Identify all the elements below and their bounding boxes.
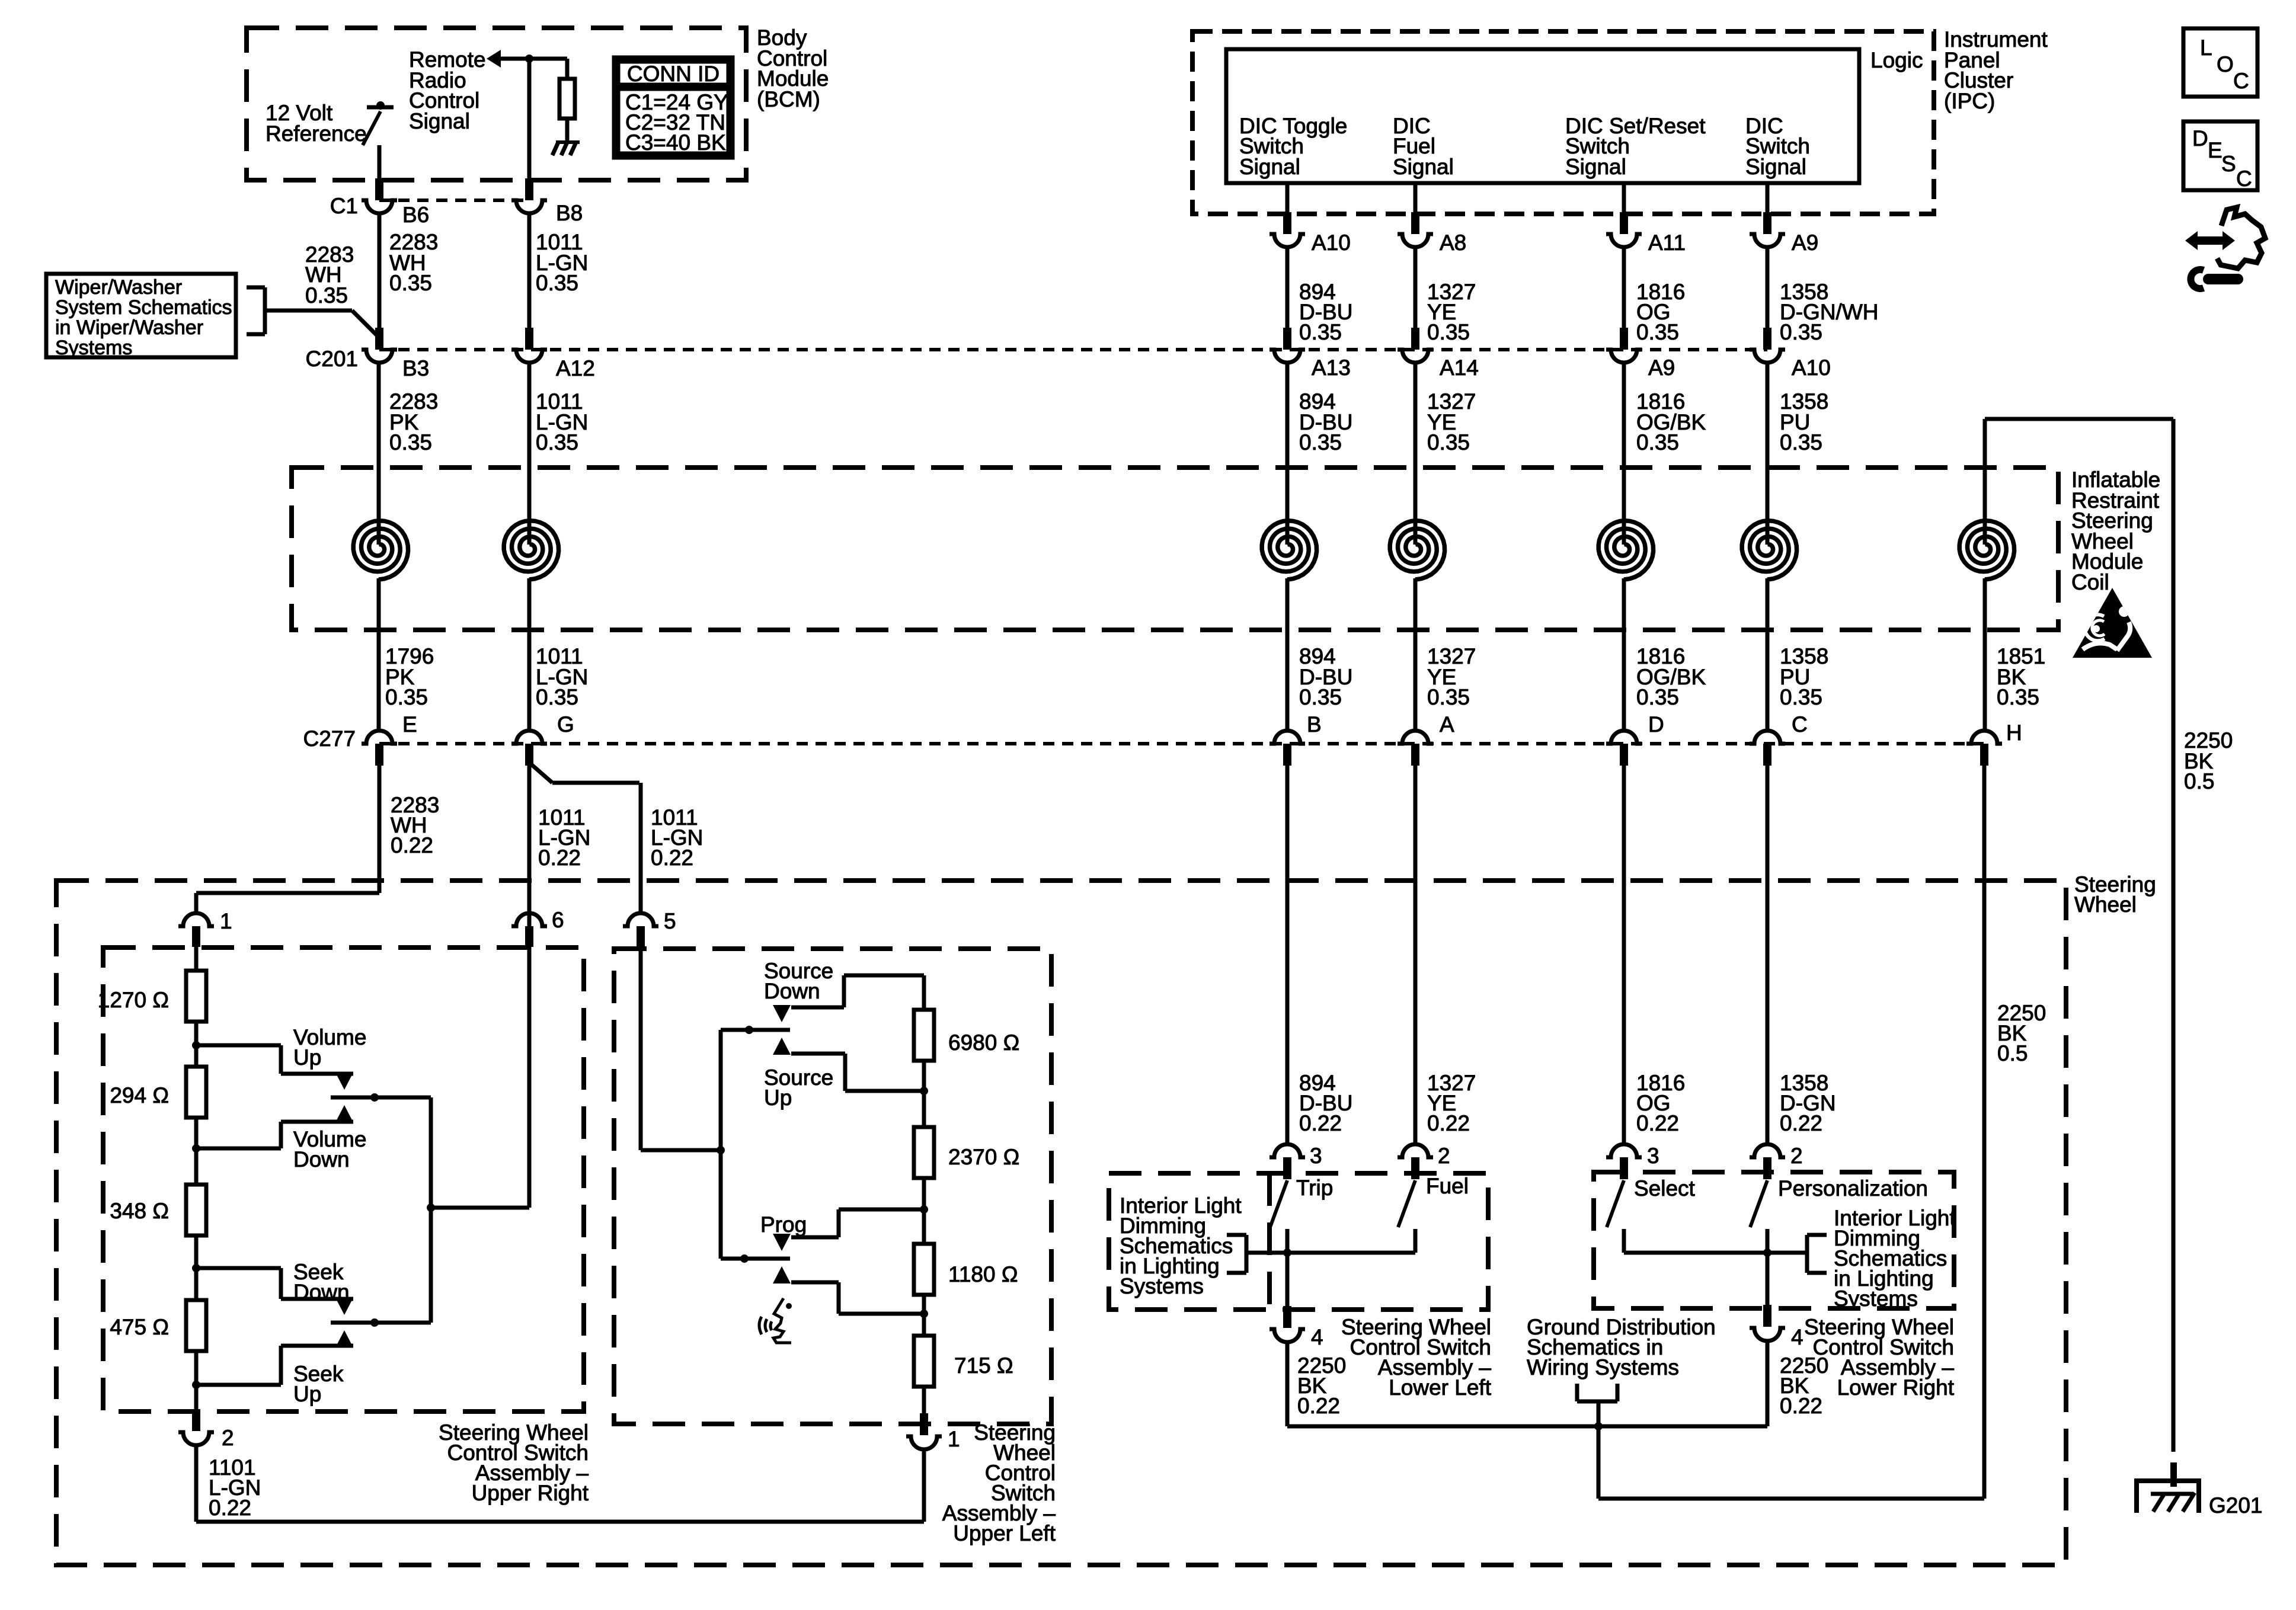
pin 4 LL female xyxy=(1269,1329,1305,1342)
switch S1 top contact xyxy=(367,105,394,110)
svg-text:A9: A9 xyxy=(1792,231,1818,255)
svg-text:4: 4 xyxy=(1311,1325,1323,1349)
wire chain d xyxy=(194,1351,199,1409)
resistor 1270 xyxy=(186,971,206,1022)
wire prog up xyxy=(791,1235,839,1240)
svg-text:(IPC): (IPC) xyxy=(1944,89,1995,113)
wire to pin1 xyxy=(194,893,199,914)
svg-text:1180 Ω: 1180 Ω xyxy=(948,1262,1018,1286)
svg-text:0.35: 0.35 xyxy=(389,430,432,454)
pin IPC-A10 male xyxy=(1283,212,1291,234)
svg-text:Select: Select xyxy=(1634,1176,1696,1201)
svg-text:0.35: 0.35 xyxy=(1636,685,1679,709)
junction dot prog bar xyxy=(740,1254,749,1263)
pin C277-C female xyxy=(1750,731,1785,744)
wire pin4 LR down xyxy=(1766,1341,1770,1426)
ground G201 stub xyxy=(2170,1462,2177,1487)
junction dot remote radio xyxy=(525,55,533,63)
wire B6 to C201 xyxy=(378,213,382,328)
pin 1 male xyxy=(192,926,200,947)
pin C201-A13 male xyxy=(1283,328,1291,350)
Trip switch blade xyxy=(1270,1180,1287,1227)
arrow remote radio xyxy=(487,50,501,68)
junction dot ground xyxy=(1594,1422,1603,1430)
switch S1 blade xyxy=(363,111,380,145)
pin Trip pin 3 male xyxy=(1283,1157,1291,1179)
wire branch down to pin5 xyxy=(639,783,643,914)
svg-text:3: 3 xyxy=(1310,1144,1322,1168)
svg-text:Personalization: Personalization xyxy=(1778,1176,1928,1201)
pin C201-A9b male xyxy=(1620,328,1628,350)
prog rocker bar xyxy=(721,1257,790,1261)
wire switch rail UR xyxy=(429,1097,433,1323)
pin C1-B6 male xyxy=(375,178,383,200)
wire rail to pin6 xyxy=(431,1206,529,1210)
svg-text:0.5: 0.5 xyxy=(2184,769,2214,793)
svg-text:0.22: 0.22 xyxy=(1427,1111,1470,1135)
steering wheel coil x3349 xyxy=(1959,521,2014,580)
svg-text:System Schematics: System Schematics xyxy=(55,296,232,319)
junction dot source up xyxy=(920,1087,928,1095)
svg-text:0.22: 0.22 xyxy=(651,846,693,870)
svg-text:A12: A12 xyxy=(556,356,595,380)
svg-text:294 Ω: 294 Ω xyxy=(110,1083,169,1108)
wire Pers lower xyxy=(1766,1229,1770,1253)
svg-text:Systems: Systems xyxy=(55,337,132,359)
wire B down xyxy=(1285,766,1290,1144)
wire volume up xyxy=(196,1044,281,1048)
svg-text:6: 6 xyxy=(552,908,564,932)
wire into coil x893 xyxy=(527,363,532,545)
steering wheel coil x2740 xyxy=(1598,521,1653,580)
svg-text:0.5: 0.5 xyxy=(1997,1041,2028,1065)
pin C201-A12 female xyxy=(511,350,547,363)
wire E corner xyxy=(196,891,379,895)
source rocker bar xyxy=(721,1028,790,1032)
pin IPC-A8 male xyxy=(1411,212,1419,234)
Upper Right assembly dashed box xyxy=(103,948,584,1411)
wire volume down xyxy=(196,1147,281,1151)
pin 1 UL female xyxy=(906,1436,942,1449)
svg-text:Logic: Logic xyxy=(1870,48,1923,72)
svg-text:B3: B3 xyxy=(402,356,429,380)
pin C277-B female xyxy=(1269,731,1305,744)
junction dot seek down xyxy=(192,1264,200,1272)
junction dot volume bar xyxy=(370,1093,379,1102)
junction dot rail UR xyxy=(427,1204,435,1212)
svg-text:in Wiper/Washer: in Wiper/Washer xyxy=(55,316,203,339)
steering wheel coil x639 xyxy=(353,521,408,580)
wire Trip lower xyxy=(1285,1229,1290,1253)
steering wheel coil x893 xyxy=(504,521,558,580)
svg-text:0.35: 0.35 xyxy=(1636,320,1679,344)
junction dot trip xyxy=(1283,1249,1291,1257)
seek up switch triangle xyxy=(335,1330,353,1347)
svg-text:6980 Ω: 6980 Ω xyxy=(948,1030,1019,1055)
svg-text:Up: Up xyxy=(764,1086,792,1110)
wire res chain UL e xyxy=(922,1387,926,1414)
wire res chain UL c xyxy=(922,1178,926,1244)
voice switch triangle xyxy=(773,1266,791,1283)
DESC box xyxy=(2183,121,2257,190)
svg-text:1: 1 xyxy=(220,909,232,933)
svg-text:Upper Right: Upper Right xyxy=(472,1481,589,1505)
pin C201-A10b male xyxy=(1763,328,1771,350)
svg-text:Signal: Signal xyxy=(1745,155,1806,179)
pin 4 LR stub xyxy=(1763,1305,1771,1327)
pin C201-A10b female xyxy=(1750,350,1785,363)
wire IPC pin A11 down xyxy=(1622,247,1626,328)
pin C201-A14 male xyxy=(1411,328,1419,350)
wire res chain UL a xyxy=(922,975,926,1010)
Wiper/Washer note box xyxy=(46,274,236,357)
svg-text:O: O xyxy=(2217,52,2234,76)
svg-text:2: 2 xyxy=(222,1426,234,1450)
svg-text:A8: A8 xyxy=(1440,231,1466,255)
IPC dashed box xyxy=(1192,31,1934,214)
steering wheel coil x2982 xyxy=(1742,521,1796,580)
LOC box xyxy=(2183,28,2257,97)
svg-text:G: G xyxy=(557,712,574,737)
wire source up xyxy=(791,1052,845,1056)
pin 2 stub xyxy=(192,1409,200,1431)
svg-text:0.35: 0.35 xyxy=(536,685,578,709)
svg-text:0.35: 0.35 xyxy=(305,283,348,308)
ground G201 symbol xyxy=(2134,1478,2201,1483)
svg-text:L: L xyxy=(2200,36,2212,60)
wire B8 inside BCM xyxy=(527,59,532,180)
pin C277-H male xyxy=(1980,744,1988,766)
svg-text:0.35: 0.35 xyxy=(536,430,578,454)
coil module dashed box xyxy=(292,468,2058,630)
seek down switch triangle xyxy=(335,1298,353,1315)
svg-text:5: 5 xyxy=(664,909,676,933)
svg-text:Down: Down xyxy=(293,1147,350,1172)
svg-text:1: 1 xyxy=(948,1427,960,1451)
volume rocker bar xyxy=(331,1096,431,1100)
wire select-pers common xyxy=(1624,1251,1807,1255)
svg-text:0.35: 0.35 xyxy=(1299,430,1342,454)
svg-text:2370 Ω: 2370 Ω xyxy=(948,1145,1019,1169)
svg-text:Trip: Trip xyxy=(1296,1176,1333,1200)
svg-text:Prog: Prog xyxy=(760,1212,807,1237)
wire IPC pin A8 down xyxy=(1414,247,1418,328)
svg-text:0.35: 0.35 xyxy=(1427,320,1470,344)
svg-text:Upper Left: Upper Left xyxy=(953,1521,1056,1545)
wire ground horizontal xyxy=(1287,1425,1767,1429)
svg-text:C277: C277 xyxy=(303,726,356,751)
svg-text:0.35: 0.35 xyxy=(389,271,432,295)
wire into coil x2388 xyxy=(1414,363,1418,545)
seek rocker bar xyxy=(331,1321,431,1325)
connector line C201 xyxy=(379,348,1767,351)
junction dot volume up xyxy=(192,1041,200,1049)
wire bracket stem xyxy=(1597,1401,1601,1426)
wire into coil x2982 xyxy=(1766,363,1770,545)
pin Fuel pin 2 female xyxy=(1398,1144,1433,1157)
svg-text:D: D xyxy=(1648,712,1664,737)
wire ground to H xyxy=(1598,1497,1984,1501)
svg-text:E: E xyxy=(2208,138,2223,162)
pin C1-B8 male xyxy=(525,178,533,200)
steering wheel coil x2388 xyxy=(1390,521,1444,580)
wire trip to pin4 xyxy=(1285,1253,1290,1306)
svg-text:Coil: Coil xyxy=(2071,570,2109,594)
pin C1-B8 female xyxy=(511,200,547,213)
wire source down xyxy=(791,1006,844,1010)
svg-text:C: C xyxy=(2236,167,2252,191)
wire switch rail UL xyxy=(719,1030,723,1259)
wire 12V to C1 xyxy=(378,145,382,180)
voice recognition icon xyxy=(773,1298,791,1343)
wire H down xyxy=(1982,766,1987,1499)
svg-text:A11: A11 xyxy=(1648,231,1686,255)
svg-text:B: B xyxy=(1307,712,1322,737)
source up switch triangle xyxy=(773,1038,791,1055)
resistor 294 xyxy=(186,1067,206,1118)
pin 4 LR female xyxy=(1750,1328,1785,1341)
svg-text:1270 Ω: 1270 Ω xyxy=(98,988,169,1012)
pin Fuel pin 2 male xyxy=(1411,1157,1419,1179)
svg-text:C3=40 BK: C3=40 BK xyxy=(625,130,726,155)
svg-text:0.22: 0.22 xyxy=(391,833,433,857)
pin Trip pin 3 female xyxy=(1269,1144,1305,1157)
ground in BCM xyxy=(556,140,580,144)
svg-text:C: C xyxy=(2233,69,2249,93)
tool icon outline xyxy=(2217,207,2265,268)
resistor 6980 xyxy=(914,1010,934,1061)
svg-text:0.22: 0.22 xyxy=(1297,1394,1340,1418)
wire out of coil x2388 xyxy=(1414,578,1418,731)
svg-text:S: S xyxy=(2221,152,2236,176)
resistor 2370 xyxy=(914,1127,934,1178)
svg-text:0.22: 0.22 xyxy=(1780,1111,1822,1135)
Lower Right assembly dashed box xyxy=(1594,1172,1954,1308)
wire into coil x2740 xyxy=(1622,363,1626,545)
wire B8 to C201 xyxy=(527,213,532,328)
pin C277-D female xyxy=(1606,731,1642,744)
svg-text:Fuel: Fuel xyxy=(1426,1174,1469,1198)
pin IPC-A11 male xyxy=(1620,212,1628,234)
pin C201-B3 male xyxy=(375,328,383,350)
Select switch blade xyxy=(1607,1180,1624,1227)
wire into coil x639 xyxy=(377,363,381,545)
svg-text:Down: Down xyxy=(764,979,820,1003)
wire C down xyxy=(1766,766,1770,1144)
svg-text:0.35: 0.35 xyxy=(1427,430,1470,454)
connector line C1 xyxy=(379,199,529,202)
svg-text:B8: B8 xyxy=(556,201,583,225)
wire pin1 to resistor chain xyxy=(194,947,199,971)
pin C201-A9b female xyxy=(1606,350,1642,363)
wire into coil x3349 xyxy=(1983,419,1987,545)
wire A down xyxy=(1414,766,1418,1144)
wire IPC logic to pin A9 xyxy=(1766,183,1770,213)
wire ground drop xyxy=(1597,1426,1601,1499)
wire pers to pin4 xyxy=(1766,1253,1770,1305)
pin C277-C male xyxy=(1763,744,1771,766)
wire IPC pin A9 down xyxy=(1766,247,1770,328)
svg-text:475 Ω: 475 Ω xyxy=(110,1315,169,1339)
svg-text:Signal: Signal xyxy=(1565,155,1626,179)
wire coil top to right xyxy=(1985,417,2173,421)
svg-text:C201: C201 xyxy=(306,347,358,371)
svg-text:2: 2 xyxy=(1790,1144,1803,1168)
svg-text:B6: B6 xyxy=(402,203,429,227)
Upper Left assembly dashed box xyxy=(614,949,1051,1424)
wire pin1 UL down xyxy=(922,1449,926,1522)
pin C277-E female xyxy=(362,731,397,744)
svg-text:0.35: 0.35 xyxy=(1780,320,1822,344)
junction dot source bar xyxy=(745,1026,753,1034)
svg-text:CONN ID: CONN ID xyxy=(627,62,720,86)
svg-text:0.22: 0.22 xyxy=(1780,1394,1822,1418)
Steering Wheel dashed box xyxy=(56,881,2066,1565)
svg-text:3: 3 xyxy=(1647,1144,1659,1168)
svg-text:Lower Left: Lower Left xyxy=(1389,1375,1491,1400)
resistor 1180 xyxy=(914,1244,934,1295)
svg-text:Wiper/Washer: Wiper/Washer xyxy=(55,276,182,299)
svg-text:A9: A9 xyxy=(1648,356,1675,380)
pin C201-A12 male xyxy=(525,328,533,350)
junction dot seek up xyxy=(192,1381,200,1389)
pin C277-E male xyxy=(375,744,383,766)
svg-text:A10: A10 xyxy=(1792,356,1831,380)
pin C277-A male xyxy=(1411,744,1419,766)
pin C201-A13 female xyxy=(1269,350,1305,363)
CONN ID table xyxy=(614,57,733,158)
junction dot voice xyxy=(920,1310,928,1318)
resistor 715 xyxy=(914,1336,934,1387)
pin IPC-A9 female xyxy=(1750,234,1785,247)
pin IPC-A11 female xyxy=(1606,234,1642,247)
svg-text:4: 4 xyxy=(1791,1325,1803,1349)
junction dot pers xyxy=(1763,1249,1771,1257)
svg-text:A10: A10 xyxy=(1312,231,1351,255)
wire pin2 down xyxy=(194,1445,199,1522)
volume down switch triangle xyxy=(335,1105,353,1122)
svg-text:Wiring Systems: Wiring Systems xyxy=(1527,1355,1679,1379)
ground bracket xyxy=(1575,1384,1579,1401)
svg-text:H: H xyxy=(2006,721,2022,745)
wire pin5 into box xyxy=(641,1148,721,1153)
svg-text:0.22: 0.22 xyxy=(1299,1111,1342,1135)
junction dot seek bar xyxy=(370,1318,379,1327)
pin 6 female xyxy=(511,913,547,926)
pin 1 UL stub xyxy=(920,1413,928,1435)
svg-text:Wheel: Wheel xyxy=(2074,892,2137,917)
wire out of coil x2982 xyxy=(1766,578,1770,731)
wire out of coil x893 xyxy=(527,578,532,731)
Personalization switch blade xyxy=(1750,1180,1767,1227)
junction dot volume down xyxy=(192,1144,200,1153)
wire voice xyxy=(791,1281,839,1285)
pin 4 LL stub xyxy=(1283,1306,1291,1328)
svg-text:G201: G201 xyxy=(2209,1493,2263,1518)
pin Personalization pin 2 female xyxy=(1750,1144,1785,1157)
pin Select pin 3 female xyxy=(1606,1144,1642,1157)
wire chain c xyxy=(194,1235,199,1300)
wire to resistor xyxy=(565,59,570,79)
wire out of coil x3349 xyxy=(1983,578,1987,731)
svg-text:0.35: 0.35 xyxy=(1427,685,1470,709)
svg-text:A14: A14 xyxy=(1440,356,1479,380)
pin C201-B3 female xyxy=(362,350,397,363)
wire into coil x2172 xyxy=(1285,363,1290,545)
svg-text:E: E xyxy=(402,712,417,737)
pin IPC-A8 female xyxy=(1398,234,1433,247)
svg-text:D: D xyxy=(2192,126,2208,151)
wire IPC logic to pin A8 xyxy=(1414,183,1418,213)
pin C201-A14 female xyxy=(1398,350,1433,363)
svg-text:0.35: 0.35 xyxy=(1997,685,2039,709)
wire wiper tap xyxy=(265,309,352,313)
wire out of coil x2740 xyxy=(1622,578,1626,731)
junction dot prog up xyxy=(920,1205,928,1214)
wire G branch diagonal xyxy=(529,763,552,783)
svg-text:A: A xyxy=(1440,712,1454,737)
svg-text:0.22: 0.22 xyxy=(1636,1111,1679,1135)
pin Select pin 3 male xyxy=(1620,1157,1628,1179)
svg-text:Up: Up xyxy=(293,1045,321,1070)
wire D down xyxy=(1622,766,1626,1144)
tool icon wrench xyxy=(2208,274,2238,284)
right interior bracket xyxy=(1807,1233,1827,1237)
wire res chain UL b xyxy=(922,1061,926,1127)
wire Select lower xyxy=(1622,1229,1626,1253)
wire E down xyxy=(378,766,382,893)
svg-text:Signal: Signal xyxy=(1393,155,1454,179)
left interior bracket xyxy=(1227,1233,1246,1237)
pin C277-B male xyxy=(1283,744,1291,766)
pin 2 female xyxy=(178,1432,214,1445)
wire pin4 LL down xyxy=(1285,1342,1290,1426)
pin IPC-A10 female xyxy=(1269,234,1305,247)
pin C277-D male xyxy=(1620,744,1628,766)
svg-text:A13: A13 xyxy=(1312,356,1351,380)
svg-text:Systems: Systems xyxy=(1834,1286,1918,1311)
junction dot rail UL xyxy=(717,1146,725,1154)
svg-text:Signal: Signal xyxy=(409,109,470,133)
pin C277-G female xyxy=(511,731,547,744)
wire 2250 BK 0.5 right xyxy=(2172,419,2176,1452)
wire chain a xyxy=(194,1022,199,1067)
wire out of coil x2172 xyxy=(1285,578,1290,731)
svg-text:C: C xyxy=(1792,712,1808,737)
Lower Left assembly dashed box xyxy=(1109,1173,1488,1310)
wire bottom link xyxy=(196,1520,924,1524)
wire resistor to ground xyxy=(565,119,570,142)
svg-text:0.35: 0.35 xyxy=(1299,320,1342,344)
steering wheel coil x2172 xyxy=(1262,521,1316,580)
volume up switch triangle xyxy=(335,1073,353,1090)
wire Fuel lower xyxy=(1414,1229,1418,1253)
svg-text:Reference: Reference xyxy=(266,121,367,146)
connector line C277 xyxy=(379,742,1984,745)
svg-text:Lower Right: Lower Right xyxy=(1837,1375,1955,1400)
wire res chain UL d xyxy=(922,1295,926,1336)
svg-text:2: 2 xyxy=(1438,1144,1450,1168)
wire chain b xyxy=(194,1118,199,1185)
pin C277-G male xyxy=(525,744,533,766)
wiper bracket xyxy=(247,286,265,290)
resistor 348 xyxy=(186,1185,206,1235)
wire out of coil x639 xyxy=(377,578,381,731)
svg-text:715 Ω: 715 Ω xyxy=(954,1353,1013,1378)
pin 6 male xyxy=(525,926,533,947)
svg-text:0.35: 0.35 xyxy=(1299,685,1342,709)
source down switch triangle xyxy=(773,1005,791,1022)
